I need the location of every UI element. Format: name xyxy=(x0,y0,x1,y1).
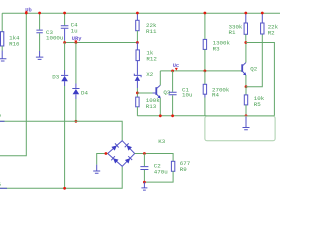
wire R12 to X2 xyxy=(136,61,138,75)
node bridge left xyxy=(105,152,108,155)
wire Uc rail y=70.9 xyxy=(160,70,242,72)
ground at bridge left xyxy=(93,165,100,174)
node R3/R4/base junction xyxy=(204,70,207,73)
wire URy rail y=42.5 xyxy=(65,42,138,44)
ground under R16 xyxy=(0,51,6,62)
resistor R16 xyxy=(1,32,21,48)
node Q3 emitter at rail xyxy=(159,114,162,117)
node C1 top xyxy=(171,70,174,73)
node D3 bottom junction xyxy=(63,187,66,190)
svg-text:R11: R11 xyxy=(146,28,157,35)
node X2/R13/base junction xyxy=(136,92,139,95)
wire mid rail y=121.3 to bridge top xyxy=(0,121,122,140)
wire D3 bottom lead down to bottom rail xyxy=(64,81,66,86)
wire bottom rail y=188.3 xyxy=(0,167,122,189)
wire C4 top lead xyxy=(64,13,66,25)
wire divider node to right and down to ground rail xyxy=(246,43,275,116)
svg-text:R9: R9 xyxy=(180,166,187,173)
resistor R12 xyxy=(136,50,157,63)
node C1 bottom xyxy=(171,114,174,117)
wire R3 bottom lead xyxy=(204,49,206,71)
node C2 top junction xyxy=(143,152,146,155)
svg-text:R4: R4 xyxy=(212,92,219,99)
ground under C3 xyxy=(36,51,43,59)
node Ub xyxy=(25,8,32,15)
wire ground rail y=116 xyxy=(137,115,274,117)
wire C3 top lead xyxy=(39,13,41,30)
wire D4 top lead xyxy=(75,43,77,84)
svg-text:1000u: 1000u xyxy=(46,35,63,42)
svg-text:URy: URy xyxy=(72,36,82,42)
wire R11 top lead xyxy=(136,13,138,20)
wire R13 bottom lead to ground rail xyxy=(136,107,138,116)
wire R3 top lead xyxy=(204,13,206,39)
diode D4 xyxy=(72,89,88,97)
svg-text:R1: R1 xyxy=(229,29,236,36)
wire second column x=26.3 down and left to edge xyxy=(0,13,26,156)
svg-text:10u: 10u xyxy=(182,92,192,99)
wire R4 top lead xyxy=(204,71,206,84)
wire D4 bottom lead xyxy=(75,94,77,99)
wire Q2 collector up to R1 xyxy=(245,43,247,63)
diode upper-left xyxy=(111,145,116,150)
transistor Q2 xyxy=(242,63,258,76)
resistor R9 xyxy=(171,160,190,173)
svg-text:1u: 1u xyxy=(71,27,78,34)
resistor R11 xyxy=(136,20,157,35)
diode lower-left xyxy=(113,158,118,163)
svg-text:470u: 470u xyxy=(154,169,168,176)
svg-text:Q2: Q2 xyxy=(250,65,257,72)
node URy xyxy=(72,36,82,44)
capacitor C3 xyxy=(36,29,63,42)
wire terminal stub left bottom xyxy=(0,187,7,189)
svg-text:R3: R3 xyxy=(213,46,220,53)
pale group box xyxy=(205,116,275,141)
diode upper-right xyxy=(127,145,132,150)
svg-text:R12: R12 xyxy=(146,56,157,63)
wire R12 top lead xyxy=(136,43,138,50)
wire R9 bottom lead and bottom link xyxy=(144,171,173,182)
svg-text:K3: K3 xyxy=(158,138,165,145)
wire R1 top lead xyxy=(245,13,247,23)
node Uc xyxy=(173,63,179,71)
wire C4 bottom lead xyxy=(64,29,66,40)
capacitor C4 xyxy=(61,21,78,34)
wire top supply rail xyxy=(2,12,280,14)
node Q2 emitter junction xyxy=(245,85,248,88)
node C2 bottom junction xyxy=(143,181,146,184)
diode D3 xyxy=(52,74,68,81)
node top of C4 column xyxy=(38,12,41,15)
wire R11 bottom lead xyxy=(136,31,138,43)
wire Q3 base xyxy=(137,92,152,94)
wire D3 top lead xyxy=(64,43,66,71)
svg-text:D3: D3 xyxy=(52,74,59,81)
ground under R5 xyxy=(243,116,250,130)
resistor R2 xyxy=(261,23,279,36)
resistor R5 xyxy=(244,95,264,108)
capacitor C2 xyxy=(140,154,167,183)
zener X2 xyxy=(134,71,153,81)
resistor R13 xyxy=(136,97,161,110)
wire emitter to R2 bottom xyxy=(246,34,262,87)
wire bridge left corner to ground xyxy=(97,154,108,165)
wire C3 bottom lead xyxy=(39,33,41,51)
wire R1 bottom lead xyxy=(245,34,247,42)
wire terminal stub left mid xyxy=(0,120,5,122)
ground under C2 xyxy=(141,182,147,190)
svg-text:D4: D4 xyxy=(81,90,88,97)
wire R4 bottom lead xyxy=(204,94,206,97)
wire bridge right corner to R9 xyxy=(135,154,173,162)
transistor Q3 xyxy=(156,85,171,98)
wire R2 top lead xyxy=(261,13,263,23)
wire X2 bottom lead xyxy=(136,81,138,88)
resistor R3 xyxy=(203,39,230,52)
node C4/D3 junction xyxy=(63,41,66,44)
svg-text:R13: R13 xyxy=(146,103,157,110)
svg-text:X2: X2 xyxy=(146,71,153,78)
wire Q2 emitter down xyxy=(245,75,247,87)
node R5 at ground rail xyxy=(245,114,248,117)
wire R16 bottom lead xyxy=(1,46,3,51)
resistor R4 xyxy=(203,84,230,98)
svg-text:R16: R16 xyxy=(9,41,20,48)
wire Q3 emitter down to ground rail xyxy=(159,98,161,116)
node R11/R12 junction xyxy=(136,41,139,44)
bridge rectifier diamond xyxy=(108,141,135,167)
wire R5 top lead xyxy=(245,87,247,95)
svg-text:R2: R2 xyxy=(268,29,275,36)
resistor R1 xyxy=(229,23,248,36)
node R1 bottom xyxy=(244,41,247,44)
wire left column down to R16 xyxy=(1,13,3,32)
diode lower-right xyxy=(125,158,130,163)
svg-text:R5: R5 xyxy=(254,101,261,108)
wire R5 bottom lead xyxy=(245,105,247,116)
wire Q3 collector up to Uc rail xyxy=(159,71,161,85)
node D4 bottom junction xyxy=(75,120,78,123)
capacitor C1 xyxy=(169,71,193,116)
